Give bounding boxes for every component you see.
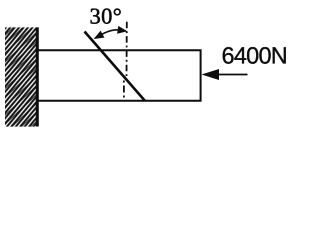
angle arc [97,30,126,38]
arc left arrowhead [94,31,105,39]
force arrow 6400N [216,74,248,76]
section line (30 deg cut) [85,32,146,101]
wall (fixed support, hatched) [5,27,37,126]
svg-text:30°: 30° [90,4,123,29]
svg-text:6400N: 6400N [222,43,288,69]
wall face line [36,27,39,126]
centerline (dash-dot vertical reference) [126,22,128,77]
arc right arrowhead [117,26,127,34]
beam outline [38,50,201,100]
